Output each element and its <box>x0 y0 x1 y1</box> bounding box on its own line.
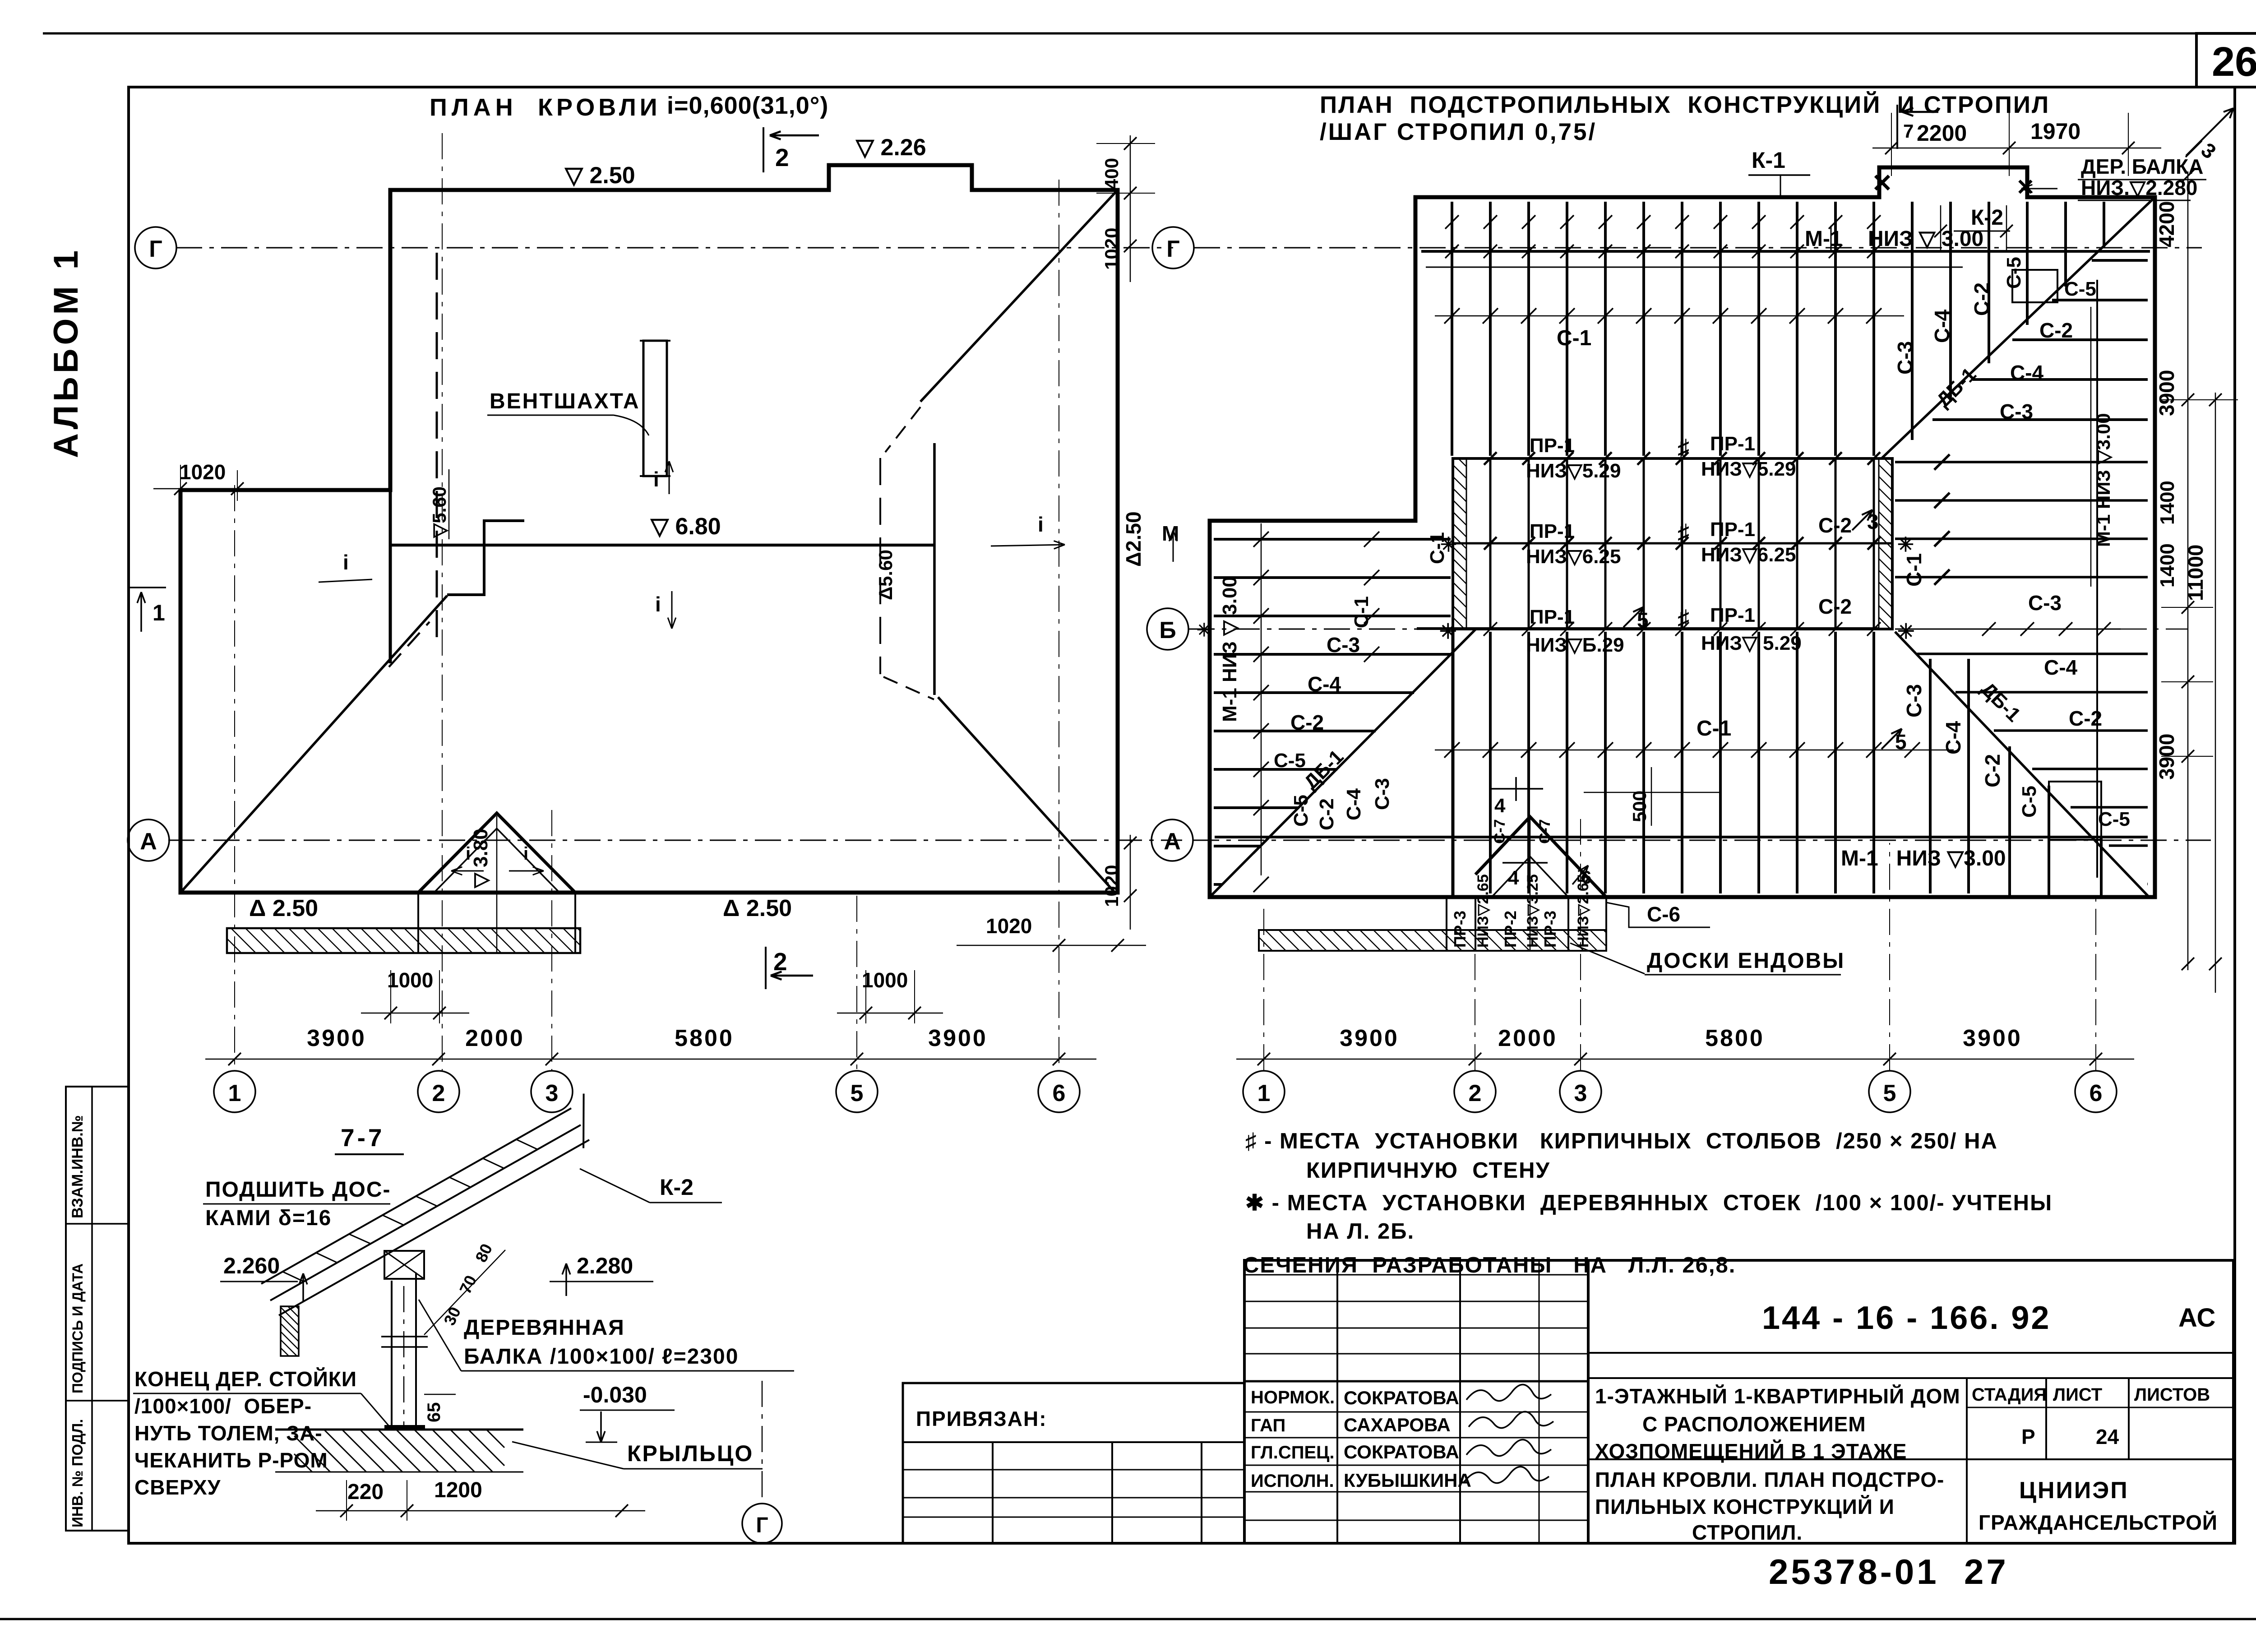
svg-text:Г: Г <box>1166 236 1179 262</box>
left field horizontal rafters <box>1214 539 1451 884</box>
title block left table <box>1244 1274 1588 1276</box>
svg-text:4: 4 <box>1494 795 1506 817</box>
right field horizontal rafters top <box>1932 260 2148 420</box>
svg-text:М: М <box>1162 522 1179 545</box>
svg-text:НИЗ▽Б.29: НИЗ▽Б.29 <box>1526 634 1624 656</box>
svg-text:С-3: С-3 <box>1893 341 1917 375</box>
axis vert 5 (left plan) <box>856 896 857 1070</box>
svg-text:С-3: С-3 <box>2028 591 2062 615</box>
section 6 arrow <box>1572 865 1588 884</box>
svg-text:2000: 2000 <box>1498 1025 1558 1051</box>
svg-text:ПР-3: ПР-3 <box>1451 911 1469 948</box>
svg-text:Г: Г <box>149 236 162 262</box>
svg-text:6: 6 <box>1053 1080 1066 1106</box>
svg-text:С-7: С-7 <box>1491 819 1508 844</box>
svg-text:ЛИСТОВ: ЛИСТОВ <box>2134 1385 2210 1405</box>
svg-text:С-1: С-1 <box>1350 596 1373 628</box>
central mid purlin <box>1453 542 1892 545</box>
axis vert 3 (left plan) <box>551 810 552 1070</box>
svg-text:С-3: С-3 <box>1371 778 1393 810</box>
bottom dim chain (left plan) <box>205 1059 1096 1060</box>
valley dashed <box>389 622 430 667</box>
porch gable right plan <box>1475 817 1606 897</box>
svg-text:М-1: М-1 <box>1805 227 1842 251</box>
svg-text:КОНЕЦ ДЕР. СТОЙКИ: КОНЕЦ ДЕР. СТОЙКИ <box>134 1367 357 1391</box>
svg-text:26: 26 <box>2212 39 2256 85</box>
half-hip dash top <box>885 407 920 452</box>
svg-text:С-1: С-1 <box>1697 717 1731 740</box>
right dim chain 1 <box>2187 171 2189 970</box>
svg-text:М-1 НИЗ ▽ 3.00: М-1 НИЗ ▽ 3.00 <box>1219 576 1241 722</box>
porch side right <box>574 893 576 928</box>
svg-text:САХАРОВА: САХАРОВА <box>1344 1414 1451 1435</box>
project number cell <box>1588 1352 2233 1354</box>
svg-text:2200: 2200 <box>1917 120 1967 146</box>
roof ridge 6.80 <box>389 544 934 547</box>
svg-text:С-2: С-2 <box>1818 514 1852 537</box>
svg-text:1: 1 <box>153 600 165 625</box>
svg-text:2000: 2000 <box>465 1025 525 1051</box>
svg-text:СОКРАТОВА: СОКРАТОВА <box>1344 1387 1459 1408</box>
svg-text:С-6: С-6 <box>1647 902 1680 926</box>
svg-text:С-2: С-2 <box>1970 282 1993 316</box>
base bold mark <box>384 1425 425 1429</box>
M-1 line at axis G <box>1421 250 2150 253</box>
svg-text:144 - 16 - 166. 92: 144 - 16 - 166. 92 <box>1762 1300 2051 1336</box>
svg-text:♯ - МЕСТА УСТАНОВКИ КИРПИЧН: ♯ - МЕСТА УСТАНОВКИ КИРПИЧНЫХ СТОЛБОВ /2… <box>1245 1129 1998 1153</box>
svg-text:Δ5.60: Δ5.60 <box>875 550 896 600</box>
svg-text:ПЛАН ПОДСТРОПИЛЬНЫХ КОНСТРУК: ПЛАН ПОДСТРОПИЛЬНЫХ КОНСТРУКЦИЙ И СТРОПИ… <box>1320 91 2050 118</box>
svg-text:ДОСКИ ЕНДОВЫ: ДОСКИ ЕНДОВЫ <box>1647 949 1845 973</box>
svg-text:С-5: С-5 <box>1274 750 1306 772</box>
porch box right plan <box>1446 897 1447 930</box>
detail ground slab <box>294 1430 504 1472</box>
svg-text:1020: 1020 <box>1101 228 1122 270</box>
rafter plan outline <box>1210 167 2155 897</box>
svg-text:-0.030: -0.030 <box>583 1382 647 1407</box>
page number box 26 <box>2196 33 2256 87</box>
svg-text:♯: ♯ <box>1678 435 1689 461</box>
svg-text:А: А <box>1164 828 1181 855</box>
bottom field rafters <box>1490 632 2101 896</box>
svg-text:ЦНИИЭП: ЦНИИЭП <box>2019 1477 2129 1504</box>
svg-text:▽ 2.50: ▽ 2.50 <box>564 162 635 189</box>
dim 1020 bottom-right rotated <box>1130 835 1131 930</box>
section marker 2 top <box>763 127 764 172</box>
axis circle 2 (right plan bottom) <box>1454 1071 1496 1112</box>
svg-text:СВЕРХУ: СВЕРХУ <box>134 1476 221 1499</box>
svg-text:▽5.60: ▽5.60 <box>429 486 450 538</box>
svg-text:С-7: С-7 <box>1536 819 1553 844</box>
svg-text:24: 24 <box>2096 1425 2119 1448</box>
svg-text:3900: 3900 <box>1963 1025 2022 1051</box>
svg-text:500: 500 <box>1629 791 1650 822</box>
svg-text:ПИЛЬНЫХ КОНСТРУКЦИЙ И: ПИЛЬНЫХ КОНСТРУКЦИЙ И <box>1595 1495 1895 1518</box>
svg-text:ИСПОЛН.: ИСПОЛН. <box>1251 1471 1334 1491</box>
half-hip dashed edge <box>879 458 881 674</box>
svg-text:i: i <box>655 592 661 616</box>
rafter plan wing top inner <box>1414 197 1417 521</box>
svg-text:НИЗ▽5.29: НИЗ▽5.29 <box>1526 460 1621 482</box>
hip bottom-left (right plan) <box>1210 629 1475 897</box>
svg-text:С-4: С-4 <box>1308 672 1341 696</box>
axis line G (right plan) <box>1194 247 2202 249</box>
right field horizontal rafters bottom <box>1895 454 2148 884</box>
top dim 2200/1970 <box>1872 148 2161 149</box>
hip bottom-right (right plan) <box>1895 632 2149 897</box>
svg-text:Р: Р <box>2021 1425 2035 1448</box>
axis line G (left plan) <box>176 247 1173 249</box>
svg-text:3: 3 <box>1867 510 1879 533</box>
svg-text:ПОДШИТЬ ДОС-: ПОДШИТЬ ДОС- <box>205 1178 391 1202</box>
svg-text:С-3: С-3 <box>2000 400 2033 423</box>
left stamp column <box>66 1087 129 1531</box>
svg-text:✳: ✳ <box>1897 620 1915 643</box>
svg-text:1400: 1400 <box>2156 481 2178 525</box>
svg-text:ПЛАН КРОВЛИ. ПЛАН ПОДСТРО-: ПЛАН КРОВЛИ. ПЛАН ПОДСТРО- <box>1595 1468 1944 1491</box>
svg-text:НА Л. 2Б.: НА Л. 2Б. <box>1306 1219 1415 1244</box>
axis circle B right <box>1147 608 1188 650</box>
half-hip gable edge <box>933 443 936 695</box>
svg-text:С-2: С-2 <box>1290 711 1324 734</box>
svg-text:К-2: К-2 <box>1971 206 2003 230</box>
svg-text:ВЗАМ.ИНВ.№: ВЗАМ.ИНВ.№ <box>69 1115 86 1218</box>
section 5 arrows <box>1882 729 1902 749</box>
svg-text:ИНВ. № ПОДЛ.: ИНВ. № ПОДЛ. <box>69 1419 86 1527</box>
roof outline (left plan) <box>180 165 1118 893</box>
svg-text:Δ2.50: Δ2.50 <box>1122 511 1145 567</box>
porch hatch right plan <box>1259 930 1606 951</box>
sheet outer border top <box>43 32 2256 35</box>
svg-text:✱ - МЕСТА УСТАНОВКИ ДЕРЕВЯНН: ✱ - МЕСТА УСТАНОВКИ ДЕРЕВЯННЫХ СТОЕК /10… <box>1245 1191 2053 1215</box>
svg-text:СОКРАТОВА: СОКРАТОВА <box>1344 1441 1459 1462</box>
svg-text:КУБЫШКИНА: КУБЫШКИНА <box>1344 1470 1471 1491</box>
plan name cell <box>1588 1458 2233 1460</box>
svg-text:1-ЭТАЖНЫЙ 1-КВАРТИРНЫЙ ДОМ: 1-ЭТАЖНЫЙ 1-КВАРТИРНЫЙ ДОМ <box>1595 1384 1960 1408</box>
axis circle A right <box>1151 819 1193 861</box>
svg-text:НИЗ▽ 5.29: НИЗ▽ 5.29 <box>1701 632 1802 654</box>
svg-text:С-4: С-4 <box>2010 361 2044 384</box>
axis circle 5 (right plan bottom) <box>1869 1071 1910 1112</box>
svg-text:ПОДПИСЬ И ДАТА: ПОДПИСЬ И ДАТА <box>69 1263 86 1393</box>
privyazan block <box>903 1383 1244 1543</box>
bottom dim chain (right plan) <box>1236 1059 2134 1060</box>
svg-text:К-2: К-2 <box>660 1175 693 1200</box>
svg-text:ПЛАН: ПЛАН <box>430 94 518 121</box>
svg-text:i: i <box>466 844 471 864</box>
svg-text:i=0,600(31,0°): i=0,600(31,0°) <box>667 92 828 119</box>
left field tick column <box>1261 523 1262 875</box>
hip top-right (right plan) <box>1882 197 2155 458</box>
svg-text:i: i <box>1038 513 1044 536</box>
porch gable inner line right <box>497 828 559 893</box>
axis vert 2 (left plan) <box>442 133 443 1070</box>
signatures squiggles <box>1466 1384 1551 1401</box>
svg-text:1020: 1020 <box>1101 865 1122 907</box>
svg-text:✕: ✕ <box>1872 169 1893 197</box>
svg-text:СЕЧЕНИЯ РАЗРАБОТАНЫ НА Л.: СЕЧЕНИЯ РАЗРАБОТАНЫ НА Л.Л. 26,8. <box>1243 1253 1736 1277</box>
svg-text:ПР-1: ПР-1 <box>1530 606 1575 628</box>
svg-text:✳: ✳ <box>1439 620 1457 643</box>
section marker 1 left <box>130 587 166 588</box>
axis circle 3 (left plan bottom) <box>531 1071 573 1112</box>
svg-text:ДЕРЕВЯННАЯ: ДЕРЕВЯННАЯ <box>464 1316 625 1340</box>
svg-text:4200: 4200 <box>2155 201 2178 247</box>
svg-text:5: 5 <box>1883 1080 1896 1106</box>
svg-text:i: i <box>653 467 659 491</box>
svg-text:1020: 1020 <box>180 460 226 484</box>
svg-text:НИЗ▽6.25: НИЗ▽6.25 <box>1526 546 1621 568</box>
svg-text:ЛИСТ: ЛИСТ <box>2053 1385 2102 1405</box>
svg-text:ПР-1: ПР-1 <box>1530 520 1575 542</box>
ridge jog step <box>447 521 524 595</box>
svg-text:НИЗ▽6.25: НИЗ▽6.25 <box>1701 544 1796 566</box>
svg-text:НУТЬ ТОЛЕМ, ЗА-: НУТЬ ТОЛЕМ, ЗА- <box>134 1421 323 1445</box>
svg-text:ПР-1: ПР-1 <box>1530 435 1575 457</box>
svg-text:С-5: С-5 <box>2098 808 2130 830</box>
svg-text:С-5: С-5 <box>1290 795 1312 827</box>
svg-text:2.280: 2.280 <box>577 1253 633 1278</box>
svg-text:ГРАЖДАНСЕЛЬСТРОЙ: ГРАЖДАНСЕЛЬСТРОЙ <box>1979 1511 2218 1534</box>
gable center line <box>496 816 498 953</box>
svg-text:Б: Б <box>1159 617 1176 643</box>
vertical left edge to eaves <box>1452 629 1455 897</box>
svg-text:С-1: С-1 <box>1557 326 1591 350</box>
svg-text:ДЕР. БАЛКА: ДЕР. БАЛКА <box>2081 155 2203 178</box>
axis G circle detail <box>762 1381 763 1503</box>
svg-text:С РАСПОЛОЖЕНИЕМ: С РАСПОЛОЖЕНИЕМ <box>1642 1412 1866 1436</box>
svg-text:400: 400 <box>1101 158 1122 190</box>
svg-text:5800: 5800 <box>1705 1025 1765 1051</box>
svg-text:2: 2 <box>773 948 787 976</box>
svg-text:С-3: С-3 <box>1902 684 1926 717</box>
svg-text:3900: 3900 <box>928 1025 988 1051</box>
svg-text:НИЗ▽5.29: НИЗ▽5.29 <box>1701 458 1796 480</box>
svg-text:5: 5 <box>1895 730 1907 754</box>
svg-text:ЧЕКАНИТЬ Р-РОМ: ЧЕКАНИТЬ Р-РОМ <box>134 1448 328 1472</box>
svg-text:220: 220 <box>347 1480 384 1504</box>
rafter tick row top <box>1435 315 1904 317</box>
svg-text:5: 5 <box>851 1080 864 1106</box>
rafters top-right short <box>1912 202 2104 440</box>
axis vert 1 (left plan) <box>234 485 235 1070</box>
svg-text:ПРИВЯЗАН:: ПРИВЯЗАН: <box>916 1407 1047 1430</box>
svg-text:2.260: 2.260 <box>223 1253 280 1278</box>
svg-text:ПР-3: ПР-3 <box>1541 911 1559 948</box>
svg-text:1400: 1400 <box>2156 543 2178 588</box>
axis line B (right plan) <box>1188 629 1421 630</box>
svg-text:А: А <box>140 828 157 855</box>
svg-text:АС: АС <box>2178 1303 2215 1333</box>
svg-text:♯: ♯ <box>1678 520 1689 546</box>
svg-text:3900: 3900 <box>1340 1025 1399 1051</box>
detail eave drop piece <box>281 1306 299 1356</box>
right mid vertical (half-hip) <box>2096 280 2098 878</box>
svg-text:1000: 1000 <box>862 968 908 992</box>
axis circle 6 (right plan bottom) <box>2075 1071 2117 1112</box>
section 3 top right <box>2186 108 2233 156</box>
svg-text:С-1: С-1 <box>1902 553 1926 587</box>
svg-text:5800: 5800 <box>675 1025 734 1051</box>
svg-text:М-1 НИЗ ▽3.00: М-1 НИЗ ▽3.00 <box>2093 413 2114 547</box>
central rect right hatch <box>1879 458 1892 629</box>
svg-text:65: 65 <box>424 1402 444 1423</box>
svg-text:ПР-1: ПР-1 <box>1710 433 1755 455</box>
svg-text:С-2: С-2 <box>1316 798 1338 830</box>
svg-text:НИЗ▽3.25: НИЗ▽3.25 <box>1524 874 1541 948</box>
svg-text:1200: 1200 <box>434 1478 482 1502</box>
svg-text:3900: 3900 <box>307 1025 366 1051</box>
svg-text:ПР-1: ПР-1 <box>1710 518 1755 541</box>
svg-text:С-5: С-5 <box>2064 278 2096 300</box>
svg-text:К-1: К-1 <box>1752 148 1785 173</box>
svg-text:ПР-1: ПР-1 <box>1710 604 1755 626</box>
section 3 arrow central <box>1852 510 1872 530</box>
axis circle 3 (right plan bottom) <box>1560 1071 1601 1112</box>
svg-text:▽ 2.26: ▽ 2.26 <box>855 134 926 161</box>
porch gable inner line left <box>434 828 497 893</box>
svg-text:✳: ✳ <box>1897 534 1914 556</box>
hip bottom-right <box>938 697 1115 893</box>
description cell <box>1588 1377 2233 1379</box>
title block outer <box>1244 1260 2233 1543</box>
svg-text:/100×100/ ОБЕР-: /100×100/ ОБЕР- <box>134 1394 312 1418</box>
svg-text:11000: 11000 <box>2184 545 2207 601</box>
detail post top block <box>384 1251 424 1279</box>
axis circle 6 (left plan bottom) <box>1038 1071 1080 1112</box>
central rect left hatch <box>1453 458 1466 629</box>
svg-text:4: 4 <box>1508 867 1519 889</box>
svg-text:5: 5 <box>1637 608 1649 632</box>
sheet outer border bottom <box>0 1618 2256 1620</box>
axis circle G right <box>1152 227 1194 268</box>
svg-text:ПР-2: ПР-2 <box>1501 911 1520 948</box>
svg-text:С-1: С-1 <box>1426 532 1448 564</box>
svg-text:С-2: С-2 <box>2069 707 2102 730</box>
stadia list listov header <box>1966 1378 1968 1459</box>
axis circle 1 (right plan bottom) <box>1243 1071 1285 1112</box>
porch side left <box>417 893 419 928</box>
svg-text:С-2: С-2 <box>1981 754 2004 787</box>
half-hip dash bottom <box>883 677 934 699</box>
central rect bottom bold (B axis) <box>1417 627 1878 630</box>
svg-text:ГЛ.СПЕЦ.: ГЛ.СПЕЦ. <box>1251 1443 1335 1462</box>
hip top-right <box>920 190 1118 402</box>
dim 400/1020 top-right <box>1130 135 1131 282</box>
right dim chain 2 (11000) <box>2215 393 2216 993</box>
M-1 line at axis A <box>1215 836 2148 838</box>
svg-text:Δ 2.50: Δ 2.50 <box>723 895 792 921</box>
axis circle G left <box>135 227 176 268</box>
level 2.280 <box>565 1263 567 1296</box>
svg-text:КИРПИЧНУЮ СТЕНУ: КИРПИЧНУЮ СТЕНУ <box>1306 1158 1550 1183</box>
svg-text:С-2: С-2 <box>1818 595 1852 618</box>
central verticals <box>1484 452 1880 629</box>
i arrow down (center) <box>671 591 673 629</box>
porch hatch slab <box>227 928 580 953</box>
left eaves inner vertical <box>389 490 392 663</box>
svg-text:С-2: С-2 <box>2039 319 2073 342</box>
small square top-right <box>2012 270 2057 302</box>
svg-text:6: 6 <box>2090 1080 2103 1106</box>
svg-text:СТРОПИЛ.: СТРОПИЛ. <box>1692 1521 1803 1544</box>
axis circle 1 (left plan bottom) <box>214 1071 255 1112</box>
detail rafter end cap <box>582 1094 585 1148</box>
svg-text:i: i <box>523 844 528 864</box>
axis line A (left plan) <box>168 840 1182 841</box>
svg-text:▽ 6.80: ▽ 6.80 <box>650 514 721 540</box>
axis circle 2 (left plan bottom) <box>418 1071 459 1112</box>
svg-text:С-5: С-5 <box>2003 257 2025 289</box>
axis vert 6 (left plan) <box>1059 180 1059 1070</box>
svg-text:7: 7 <box>1903 120 1914 142</box>
svg-text:СТАДИЯ: СТАДИЯ <box>1972 1385 2047 1405</box>
svg-text:1970: 1970 <box>2030 119 2080 144</box>
section 4 marker top <box>1489 788 1543 790</box>
B row right extension <box>1895 629 2121 630</box>
svg-text:БАЛКА /100×100/ ℓ=2300: БАЛКА /100×100/ ℓ=2300 <box>464 1345 739 1369</box>
section marker 2 bottom <box>765 947 767 989</box>
svg-text:С-4: С-4 <box>1930 309 1954 343</box>
rafters top field <box>1426 267 1963 268</box>
svg-text:С-5: С-5 <box>2018 786 2040 818</box>
svg-text:1: 1 <box>228 1080 241 1106</box>
svg-text:НИЗ▽2.65: НИЗ▽2.65 <box>1475 874 1492 948</box>
hip bottom-left <box>180 596 447 893</box>
svg-text:/ШАГ СТРОПИЛ 0,75/: /ШАГ СТРОПИЛ 0,75/ <box>1320 119 1597 145</box>
svg-text:2: 2 <box>1469 1080 1482 1106</box>
detail rafter band <box>279 1140 589 1315</box>
svg-text:1020: 1020 <box>986 914 1032 938</box>
svg-text:3: 3 <box>1574 1080 1587 1106</box>
svg-text:С-3: С-3 <box>1327 633 1360 657</box>
svg-text:АЛЬБОМ 1: АЛЬБОМ 1 <box>47 247 85 458</box>
svg-text:2: 2 <box>432 1080 445 1106</box>
axis line A (right plan) <box>1193 840 2211 841</box>
svg-text:ГАП: ГАП <box>1251 1416 1285 1435</box>
section 7 marker <box>1896 105 1898 149</box>
svg-text:С-4: С-4 <box>1343 788 1365 820</box>
svg-text:3: 3 <box>546 1080 559 1106</box>
svg-text:i: i <box>343 551 349 574</box>
svg-text:С-4: С-4 <box>2044 656 2078 679</box>
axis circle 5 (left plan bottom) <box>836 1071 878 1112</box>
svg-text:25378-01 27: 25378-01 27 <box>1769 1552 2009 1592</box>
i arrow up (center) <box>669 461 670 494</box>
svg-text:1000: 1000 <box>387 968 433 992</box>
svg-text:7-7: 7-7 <box>341 1124 385 1152</box>
detail post <box>391 1281 393 1430</box>
svg-text:С-4: С-4 <box>1942 721 1965 754</box>
svg-text:НОРМОК.: НОРМОК. <box>1251 1388 1335 1407</box>
svg-text:НИЗ.▽2.280: НИЗ.▽2.280 <box>2081 176 2197 199</box>
svg-text:КРЫЛЬЦО: КРЫЛЬЦО <box>627 1441 754 1466</box>
svg-text:КРОВЛИ: КРОВЛИ <box>538 94 661 121</box>
svg-text:М-1 НИЗ ▽3.00: М-1 НИЗ ▽3.00 <box>1841 847 2006 870</box>
svg-text:Г: Г <box>756 1513 768 1537</box>
wing ridge dashed 5.60 <box>436 253 438 650</box>
svg-text:Δ 2.50: Δ 2.50 <box>249 895 318 921</box>
vent shaft <box>643 341 667 476</box>
rafter tick row bottom <box>1435 750 1954 751</box>
svg-text:3900: 3900 <box>2155 370 2178 416</box>
svg-text:6: 6 <box>1581 868 1591 888</box>
axis circle A left <box>128 819 169 861</box>
svg-text:ВЕНТШАХТА: ВЕНТШАХТА <box>490 389 640 413</box>
svg-text:КАМИ δ=16: КАМИ δ=16 <box>205 1206 332 1230</box>
svg-text:2: 2 <box>775 143 789 171</box>
central purlin rect <box>1453 458 1892 629</box>
